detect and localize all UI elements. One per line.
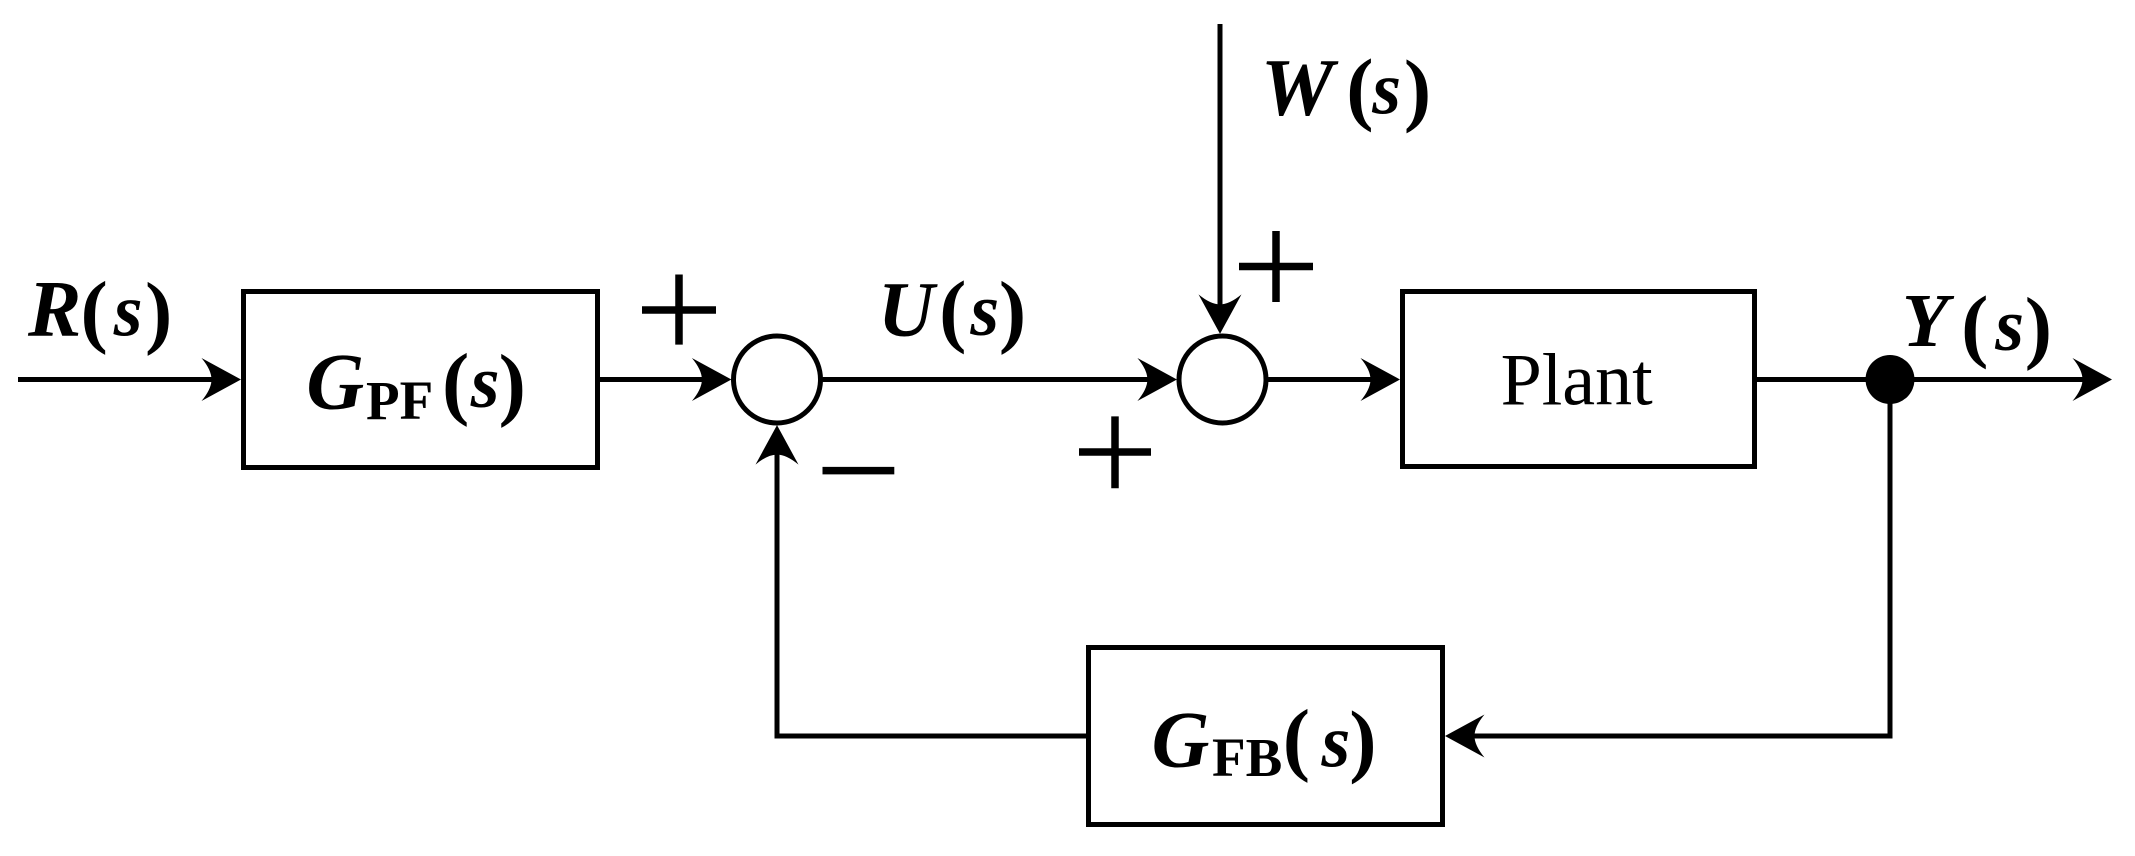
- svg-text:Y: Y: [1902, 279, 1955, 363]
- svg-text:s: s: [1371, 49, 1401, 131]
- svg-text:(: (: [1961, 279, 1988, 370]
- svg-text:G: G: [1152, 697, 1210, 785]
- svg-text:(: (: [1283, 693, 1310, 784]
- svg-text:s: s: [1321, 702, 1351, 784]
- svg-text:): ): [145, 266, 172, 357]
- svg-text:U: U: [878, 266, 938, 353]
- svg-text:s: s: [113, 271, 143, 353]
- svg-text:(: (: [81, 265, 108, 356]
- svg-text:PF: PF: [366, 370, 433, 431]
- svg-text:): ): [1349, 694, 1376, 785]
- svg-text:R: R: [27, 266, 81, 354]
- svg-text:W: W: [1261, 42, 1339, 133]
- svg-text:): ): [499, 337, 526, 428]
- svg-text:(: (: [1346, 42, 1373, 133]
- svg-text:Plant: Plant: [1501, 340, 1654, 422]
- svg-text:): ): [2025, 280, 2052, 371]
- svg-text:s: s: [470, 342, 500, 424]
- svg-text:s: s: [1994, 285, 2024, 367]
- svg-text:(: (: [442, 337, 469, 428]
- svg-text:(: (: [939, 264, 966, 355]
- svg-text:): ): [999, 265, 1026, 356]
- svg-text:G: G: [306, 339, 364, 427]
- svg-text:): ): [1404, 43, 1431, 134]
- svg-text:FB: FB: [1212, 727, 1282, 788]
- svg-text:s: s: [969, 270, 999, 352]
